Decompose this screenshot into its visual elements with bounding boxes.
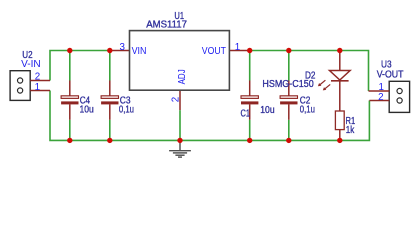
C3 top plate <box>101 96 118 99</box>
capacitor C1 <box>241 81 275 120</box>
wire C4 vertical lower <box>69 120 71 141</box>
LED D2 <box>262 51 350 112</box>
wire VIN pin stub <box>110 50 130 52</box>
svg-text:10u: 10u <box>260 105 274 116</box>
svg-text:2: 2 <box>171 97 182 102</box>
pin U3.2 stub <box>369 100 389 102</box>
D2 emission arrow 1 <box>320 80 326 85</box>
node C3 / VIN top <box>107 48 112 53</box>
node D2 top <box>337 48 342 53</box>
pin D2 cathode stub <box>339 81 341 111</box>
pin C2 top stub <box>288 81 290 96</box>
ground <box>169 140 191 157</box>
svg-text:VIN: VIN <box>132 46 147 57</box>
svg-text:10u: 10u <box>80 104 94 115</box>
connector U2 V-IN <box>10 50 50 100</box>
capacitor C4 <box>61 81 94 120</box>
node C3 bottom <box>107 138 112 143</box>
node C4 top <box>67 48 72 53</box>
svg-text:0,1u: 0,1u <box>300 105 315 116</box>
svg-text:C1: C1 <box>241 109 251 120</box>
wire C1 vertical lower <box>249 120 251 141</box>
U2 pin 1 circle <box>18 88 23 93</box>
pin C4 top stub <box>69 81 71 96</box>
pin C1 top stub <box>249 81 251 96</box>
wire bottom ground rail from U2 pin 1 to U3 pin 2 <box>50 91 369 141</box>
wire C2 vertical lower <box>288 120 290 141</box>
resistor R1 <box>335 111 355 140</box>
C1 top plate <box>241 96 258 99</box>
pin C1 bottom stub <box>249 104 251 119</box>
U3 body <box>389 81 409 112</box>
R1 body <box>335 111 344 130</box>
svg-text:3: 3 <box>119 42 125 53</box>
node C2 top <box>286 48 291 53</box>
pin D2 anode stub <box>339 51 341 71</box>
svg-text:1k: 1k <box>346 125 355 136</box>
svg-text:HSMG-C150: HSMG-C150 <box>262 79 314 90</box>
node C1 top <box>247 48 252 53</box>
capacitor C3 <box>101 81 134 120</box>
C4 bottom plate <box>61 101 78 104</box>
svg-text:1: 1 <box>235 42 240 53</box>
pin C4 bottom stub <box>69 104 71 119</box>
D2 triangle <box>330 71 351 81</box>
pin U2.1 stub <box>30 90 50 92</box>
C4 top plate <box>61 96 78 99</box>
pin U2.2 stub <box>30 80 50 82</box>
svg-text:2: 2 <box>378 92 383 103</box>
svg-text:1: 1 <box>35 82 40 93</box>
U3 pin 2 circle <box>397 98 402 103</box>
pin C2 bottom stub <box>288 104 290 119</box>
U3 pin 1 circle <box>397 88 402 93</box>
svg-text:V-IN: V-IN <box>21 59 41 70</box>
pin U3.1 stub <box>369 90 390 92</box>
wire VOUT pin stub <box>229 50 249 52</box>
svg-text:0,1u: 0,1u <box>119 105 134 116</box>
capacitor C2 <box>280 81 315 120</box>
D2 cathode bar <box>331 80 349 82</box>
node C2 bottom <box>286 138 291 143</box>
U1 body <box>130 31 230 91</box>
C3 bottom plate <box>101 101 118 104</box>
U2 pin 2 circle <box>18 78 23 83</box>
wire C3 vertical lower <box>109 120 111 141</box>
node C4 bottom <box>67 138 72 143</box>
pin R1 bottom stub <box>339 130 341 141</box>
pin C3 top stub <box>109 81 111 96</box>
svg-text:AMS1117: AMS1117 <box>146 19 187 30</box>
wire top rail left from U2 pin 2 to VIN junction <box>50 51 110 81</box>
node R1 bottom <box>337 138 342 143</box>
wire ADJ pin stub <box>179 90 181 110</box>
wire C4 vertical upper <box>69 51 71 81</box>
C2 top plate <box>280 96 297 99</box>
wire C3 vertical upper <box>109 51 111 81</box>
node ground <box>177 138 182 143</box>
C2 bottom plate <box>280 101 297 104</box>
pin C3 bottom stub <box>109 104 111 119</box>
svg-text:V-OUT: V-OUT <box>377 70 404 81</box>
wire C2 vertical upper <box>288 51 290 81</box>
D2 emission arrow 2 <box>324 84 330 89</box>
connector U3 V-OUT <box>369 59 410 112</box>
node C1 bottom <box>247 138 252 143</box>
regulator U1 AMS1117 <box>119 11 240 102</box>
U2 body <box>10 71 30 101</box>
svg-text:VOUT: VOUT <box>202 46 226 57</box>
wire top rail right from VOUT to U3 pin 1 <box>250 51 369 92</box>
wire C1 vertical upper <box>249 51 251 81</box>
wire ADJ to ground rail <box>179 110 181 140</box>
svg-text:ADJ: ADJ <box>177 69 188 84</box>
C1 bottom plate <box>241 101 258 104</box>
